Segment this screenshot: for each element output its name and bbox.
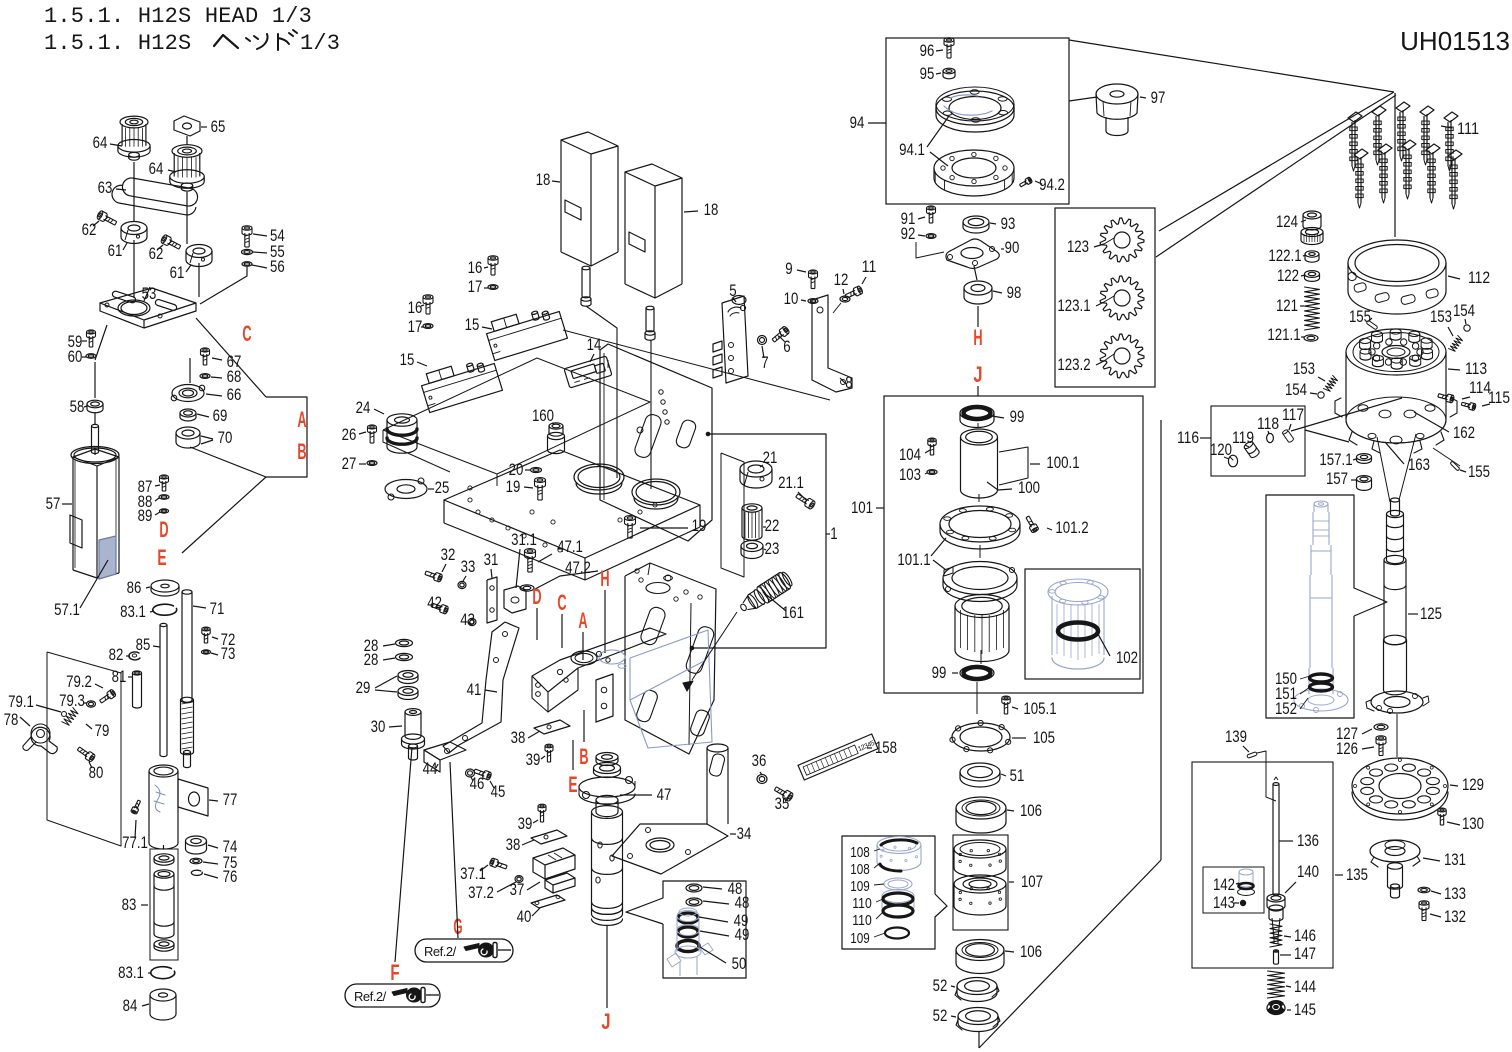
svg-text:70: 70 xyxy=(218,428,233,447)
cylinder 100 xyxy=(961,429,1041,498)
svg-text:E: E xyxy=(568,772,577,797)
svg-text:89: 89 xyxy=(138,506,153,525)
svg-text:73: 73 xyxy=(221,644,236,663)
screw 21.1 xyxy=(778,473,816,510)
svg-text:121: 121 xyxy=(1276,296,1298,315)
svg-text:90: 90 xyxy=(1005,238,1020,257)
svg-text:104: 104 xyxy=(899,445,921,464)
title line 2 xyxy=(44,30,340,56)
svg-text:120: 120 xyxy=(1210,440,1232,459)
shaft 71 xyxy=(180,590,224,768)
rod 85 xyxy=(136,623,167,756)
valve 15 right xyxy=(465,302,568,361)
svg-text:101.2: 101.2 xyxy=(1055,518,1088,537)
svg-text:135: 135 xyxy=(1346,865,1368,884)
screw 47.1 xyxy=(524,537,582,572)
plate 38 lower xyxy=(506,830,567,854)
svg-text:B: B xyxy=(579,744,588,769)
plug 119 xyxy=(1232,428,1260,459)
svg-text:21: 21 xyxy=(763,448,778,467)
svg-text:D: D xyxy=(159,517,168,542)
svg-text:155: 155 xyxy=(1468,462,1490,481)
svg-text:17: 17 xyxy=(468,277,483,296)
svg-text:Ref.2/: Ref.2/ xyxy=(424,944,457,959)
svg-text:143: 143 xyxy=(1213,893,1235,912)
tube 83 contents xyxy=(122,854,174,951)
cap 24 xyxy=(356,398,417,453)
valve set 111 xyxy=(1348,102,1479,209)
svg-text:43: 43 xyxy=(460,610,475,629)
svg-text:129: 129 xyxy=(1462,775,1484,794)
collar 61 right xyxy=(170,244,212,282)
spring 146 xyxy=(1270,924,1316,947)
bracket 34 xyxy=(612,744,751,874)
box 101 xyxy=(884,396,1143,693)
belt 63 xyxy=(98,175,199,216)
wire 6670 stack xyxy=(190,358,266,477)
svg-text:61: 61 xyxy=(108,241,123,260)
svg-text:81: 81 xyxy=(112,667,127,686)
svg-text:111: 111 xyxy=(1457,119,1479,138)
svg-text:E: E xyxy=(157,545,166,570)
base plate xyxy=(444,450,700,580)
roller 22 xyxy=(742,504,779,540)
svg-text:94: 94 xyxy=(850,113,865,132)
washer 36 xyxy=(752,751,767,784)
svg-text:121.1: 121.1 xyxy=(1267,325,1300,344)
box 142-143 xyxy=(1203,867,1264,913)
svg-text:37.1: 37.1 xyxy=(460,864,486,883)
screw 160 xyxy=(532,406,565,454)
spool 47 xyxy=(579,752,671,925)
label 162 xyxy=(1414,412,1475,442)
bracket 31 xyxy=(484,550,499,623)
spring 144 xyxy=(1267,971,1316,998)
ring 93 xyxy=(963,214,1015,233)
wire 77 to 83 xyxy=(162,845,164,849)
label 49 b xyxy=(700,925,749,944)
svg-text:105.1: 105.1 xyxy=(1023,699,1056,718)
bar 40 xyxy=(517,895,565,926)
oring 118 xyxy=(1257,414,1279,443)
svg-text:31: 31 xyxy=(484,550,499,569)
knob 97 xyxy=(1096,84,1165,136)
taper tip 136 xyxy=(1269,905,1283,944)
washer 68 xyxy=(200,367,241,386)
screw 37.1 xyxy=(460,858,508,883)
drum 113 xyxy=(1335,329,1487,453)
motor 57 xyxy=(46,424,119,578)
shaft of 18 left xyxy=(581,266,591,306)
letter C left xyxy=(242,321,251,346)
svg-text:93: 93 xyxy=(1001,214,1016,233)
cylinder 77 xyxy=(149,765,237,849)
svg-text:20: 20 xyxy=(509,460,524,479)
svg-text:162: 162 xyxy=(1453,423,1475,442)
screw 114 xyxy=(1437,378,1491,403)
svg-text:133: 133 xyxy=(1444,884,1466,903)
screw 45 xyxy=(473,767,505,801)
washer 17 right xyxy=(468,277,498,296)
hub 131 xyxy=(1370,840,1466,898)
svg-text:1.5.1. H12S HEAD 1/3: 1.5.1. H12S HEAD 1/3 xyxy=(44,4,312,29)
bearing 98 xyxy=(964,281,1021,304)
washer 75 xyxy=(190,853,237,872)
screw 126 xyxy=(1336,736,1386,758)
svg-text:7: 7 xyxy=(761,353,768,372)
svg-text:78: 78 xyxy=(4,710,19,729)
svg-text:130: 130 xyxy=(1462,814,1484,833)
svg-text:94.1: 94.1 xyxy=(899,140,925,159)
part 142 xyxy=(1213,869,1255,896)
svg-text:116: 116 xyxy=(1177,428,1199,447)
screw 54 xyxy=(242,226,285,247)
svg-text:86: 86 xyxy=(127,578,142,597)
bracket 41 xyxy=(443,622,519,753)
rib cup 101 body xyxy=(955,595,1009,662)
wire apex lines xyxy=(1069,40,1396,257)
svg-text:52: 52 xyxy=(933,976,948,995)
svg-text:142: 142 xyxy=(1213,875,1235,894)
svg-text:D: D xyxy=(532,584,541,609)
washer 133 xyxy=(1418,884,1466,903)
svg-text:82: 82 xyxy=(109,645,124,664)
letter F xyxy=(390,747,412,985)
screw 11 xyxy=(844,257,876,300)
svg-text:140: 140 xyxy=(1297,862,1319,881)
wire rod 18R xyxy=(650,340,652,489)
retainer 101.1 a xyxy=(940,506,1020,549)
plate 38 upper xyxy=(511,720,570,747)
pin 147 xyxy=(1273,944,1316,964)
svg-text:155: 155 xyxy=(1349,307,1371,326)
plate 53 xyxy=(100,284,196,328)
svg-text:63: 63 xyxy=(98,178,113,197)
wire 58 to 57 xyxy=(94,412,96,424)
svg-text:37: 37 xyxy=(510,880,525,899)
svg-text:131: 131 xyxy=(1444,850,1466,869)
svg-text:83.1: 83.1 xyxy=(120,602,146,621)
washer 20 xyxy=(509,460,542,479)
wires 100-stack xyxy=(977,423,981,714)
svg-text:19: 19 xyxy=(506,477,521,496)
pulley 64 left xyxy=(93,116,150,160)
letter H mid xyxy=(600,566,609,653)
letter J right xyxy=(973,362,982,396)
disc 129 xyxy=(1352,758,1484,820)
oring 120 xyxy=(1210,440,1238,467)
wire nut65 to pulley xyxy=(186,136,188,145)
svg-text:154: 154 xyxy=(1285,380,1307,399)
svg-text:40: 40 xyxy=(517,907,532,926)
screw 79.2 xyxy=(66,672,116,705)
washer 60 xyxy=(68,347,96,366)
screw 67 xyxy=(201,348,242,371)
svg-text:57: 57 xyxy=(46,494,61,513)
retainer 101.1 b xyxy=(897,538,1017,602)
screw 72 xyxy=(202,627,236,649)
svg-text:154: 154 xyxy=(1453,301,1475,320)
svg-text:100: 100 xyxy=(1018,478,1040,497)
washer 103 xyxy=(899,465,937,484)
screw 105.1 xyxy=(1002,696,1057,718)
svg-text:79.1: 79.1 xyxy=(8,692,34,711)
washer 121.1 xyxy=(1267,325,1318,344)
svg-text:147: 147 xyxy=(1294,944,1316,963)
wire plate to 58 xyxy=(95,325,107,398)
wire 56 to plate xyxy=(200,267,247,304)
svg-text:49: 49 xyxy=(735,925,750,944)
svg-text:101.1: 101.1 xyxy=(897,550,930,569)
ball 79.1 xyxy=(8,692,66,717)
washer 88 xyxy=(138,492,169,511)
block 18 right xyxy=(625,164,718,298)
lever 78 xyxy=(4,710,58,754)
washer 47.2 xyxy=(520,558,598,591)
screw 9 xyxy=(785,259,817,289)
svg-text:32: 32 xyxy=(441,545,456,564)
bearing 74 xyxy=(185,836,237,856)
svg-text:22: 22 xyxy=(765,516,780,535)
svg-text:103: 103 xyxy=(899,465,921,484)
rod 136 xyxy=(1273,777,1319,895)
label 48 b xyxy=(703,893,749,912)
svg-text:38: 38 xyxy=(506,835,521,854)
svg-text:16: 16 xyxy=(408,298,423,317)
screw 62 right xyxy=(149,234,182,263)
box 94 xyxy=(886,38,1069,204)
washer 127 xyxy=(1336,724,1388,743)
letter J mid xyxy=(601,1009,610,1034)
svg-text:6: 6 xyxy=(783,337,790,356)
svg-text:39: 39 xyxy=(526,750,541,769)
scale 158 xyxy=(798,734,897,780)
letters BE mid xyxy=(568,710,588,797)
svg-text:106: 106 xyxy=(1020,801,1042,820)
svg-text:A: A xyxy=(578,608,587,633)
svg-text:A: A xyxy=(297,407,306,432)
svg-text:79.3: 79.3 xyxy=(59,691,85,710)
label 48 a xyxy=(703,879,742,898)
svg-text:84: 84 xyxy=(123,996,138,1015)
seal 52 b xyxy=(933,1006,1000,1032)
wires drum to shaft xyxy=(1377,434,1460,502)
screw 96 xyxy=(920,38,954,60)
screw 59 xyxy=(68,330,96,351)
letter B left xyxy=(297,439,306,464)
screw 77.1 xyxy=(122,799,148,852)
inset 102 xyxy=(1025,569,1140,679)
washer 43 xyxy=(460,610,476,629)
bearing 23 xyxy=(741,539,779,559)
frame 78-80 xyxy=(47,652,121,846)
title line 1 xyxy=(44,4,312,29)
svg-text:94.2: 94.2 xyxy=(1039,175,1065,194)
box 116 xyxy=(1177,406,1305,476)
svg-text:61: 61 xyxy=(170,263,185,282)
svg-text:83.1: 83.1 xyxy=(118,963,144,982)
svg-text:34: 34 xyxy=(737,824,752,843)
washer 157.1 xyxy=(1319,450,1371,469)
bracket 1 lines xyxy=(690,432,838,650)
svg-text:99: 99 xyxy=(932,663,947,682)
frame 21-23 xyxy=(721,453,744,577)
capsule F xyxy=(345,984,440,1007)
svg-text:79.2: 79.2 xyxy=(66,672,92,691)
svg-text:108: 108 xyxy=(850,844,870,861)
svg-text:100.1: 100.1 xyxy=(1046,453,1079,472)
panel 57.1 xyxy=(54,536,116,619)
spring 121 xyxy=(1276,287,1320,330)
snap 76 xyxy=(191,867,237,886)
gear 123.1 xyxy=(1057,276,1144,320)
pin 117 xyxy=(1282,405,1304,443)
flange 66 xyxy=(171,384,241,404)
wire rod 18L xyxy=(586,306,617,478)
svg-text:23: 23 xyxy=(765,539,780,558)
svg-text:62: 62 xyxy=(82,220,97,239)
washer 17 left xyxy=(408,317,433,336)
nut 157 xyxy=(1326,469,1372,490)
ring gear 94 top xyxy=(936,87,1014,132)
svg-text:24: 24 xyxy=(356,398,371,417)
letter H right xyxy=(973,306,982,350)
svg-text:B: B xyxy=(297,439,306,464)
collar 140 xyxy=(1267,862,1319,910)
gear 123 xyxy=(1067,218,1144,262)
needle 155 b xyxy=(1450,461,1490,481)
gear 123.2 xyxy=(1057,334,1144,378)
svg-text:1.5.1. H12S: 1.5.1. H12S xyxy=(44,31,191,56)
shaft of 18 right xyxy=(645,306,655,340)
svg-text:95: 95 xyxy=(920,64,935,83)
pulley 64 right xyxy=(149,145,205,191)
label 49 a xyxy=(699,911,748,930)
flange 25 xyxy=(385,478,449,500)
label 101 xyxy=(851,498,884,517)
svg-text:132: 132 xyxy=(1444,907,1466,926)
svg-text:14: 14 xyxy=(587,335,602,354)
screw 6 xyxy=(771,326,791,356)
part 5 link xyxy=(713,281,748,383)
svg-text:41: 41 xyxy=(467,680,482,699)
svg-text:Ref.2/: Ref.2/ xyxy=(354,989,387,1004)
screw 132 xyxy=(1419,901,1466,926)
screw 19 right xyxy=(625,516,707,538)
svg-text:C: C xyxy=(557,590,566,615)
washer 73 xyxy=(201,644,235,663)
svg-text:144: 144 xyxy=(1294,977,1316,996)
svg-text:105: 105 xyxy=(1033,728,1055,747)
svg-text:108: 108 xyxy=(850,861,870,878)
frame 83 xyxy=(150,849,178,960)
svg-text:92: 92 xyxy=(901,224,916,243)
ring 99 bottom xyxy=(932,663,994,682)
box 135 xyxy=(1192,762,1368,968)
letter G xyxy=(450,762,463,939)
svg-text:83: 83 xyxy=(122,895,137,914)
washer 28 b xyxy=(364,650,413,669)
svg-text:123.2: 123.2 xyxy=(1057,355,1090,374)
svg-text:58: 58 xyxy=(70,397,85,416)
svg-text:11: 11 xyxy=(862,257,877,276)
switch 37 xyxy=(510,848,575,899)
washer 122 xyxy=(1277,266,1320,285)
discs 107 xyxy=(954,840,1043,915)
svg-text:1: 1 xyxy=(830,524,837,543)
screw 16 right xyxy=(468,256,498,277)
part 143 xyxy=(1213,893,1246,912)
svg-text:39: 39 xyxy=(518,814,533,833)
screw 101.2 xyxy=(1024,515,1088,537)
svg-text:160: 160 xyxy=(532,406,554,425)
bracket 100.1 xyxy=(999,447,1080,485)
washer 37.2 xyxy=(468,876,523,902)
washer 7 xyxy=(758,336,769,373)
svg-text:UH01513: UH01513 xyxy=(1400,26,1510,56)
cap 145 xyxy=(1267,1000,1316,1019)
svg-text:18: 18 xyxy=(704,200,719,219)
svg-text:64: 64 xyxy=(93,133,108,152)
svg-text:12: 12 xyxy=(834,270,849,289)
svg-text:145: 145 xyxy=(1294,1000,1316,1019)
screw 42 xyxy=(427,593,449,614)
svg-text:47: 47 xyxy=(657,785,672,804)
svg-text:112: 112 xyxy=(1468,268,1490,287)
inset 48-50 xyxy=(626,881,746,978)
ring 51 xyxy=(960,763,1024,787)
svg-text:F: F xyxy=(390,960,399,985)
disc 94.1 xyxy=(899,116,1014,196)
svg-text:56: 56 xyxy=(270,257,285,276)
svg-text:157: 157 xyxy=(1326,469,1348,488)
wire 53 to bracketAB xyxy=(196,318,266,397)
nut 65 xyxy=(174,116,225,136)
svg-text:21.1: 21.1 xyxy=(778,473,804,492)
label 50 xyxy=(700,947,746,973)
svg-text:10: 10 xyxy=(784,289,799,308)
svg-text:71: 71 xyxy=(210,599,225,618)
bracket 8 xyxy=(812,295,853,392)
valve 15 left xyxy=(400,350,503,412)
svg-text:125: 125 xyxy=(1420,604,1442,623)
bracket 44 xyxy=(423,742,466,778)
washer 89 xyxy=(138,506,169,525)
svg-text:157.1: 157.1 xyxy=(1319,450,1352,469)
screw 32 xyxy=(424,545,455,582)
svg-text:153: 153 xyxy=(1430,307,1452,326)
wire 92 plate xyxy=(916,242,944,258)
part 14 xyxy=(564,335,612,388)
wire pulley64R down xyxy=(187,192,199,297)
svg-text:139: 139 xyxy=(1225,727,1247,746)
svg-text:44: 44 xyxy=(423,759,438,778)
svg-text:106: 106 xyxy=(1020,942,1042,961)
svg-text:37.2: 37.2 xyxy=(468,883,494,902)
svg-text:48: 48 xyxy=(735,893,750,912)
svg-text:123.1: 123.1 xyxy=(1057,296,1090,315)
svg-text:101: 101 xyxy=(851,498,873,517)
spring pin 153 b xyxy=(1293,359,1339,393)
svg-text:C: C xyxy=(242,321,251,346)
svg-text:64: 64 xyxy=(149,159,164,178)
block 18 left xyxy=(536,132,618,266)
svg-text:33: 33 xyxy=(461,557,476,576)
ring 58 xyxy=(70,397,103,416)
wire box94 to 97 xyxy=(1069,97,1097,101)
snap ring 83.1 lower xyxy=(118,963,175,982)
wire shaft to disc xyxy=(1396,714,1398,757)
